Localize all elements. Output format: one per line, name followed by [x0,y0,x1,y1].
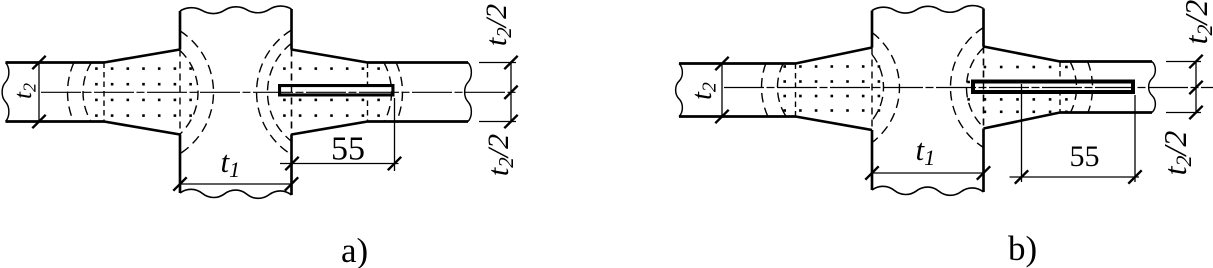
svg-text:t2/2: t2/2 [1157,131,1196,176]
svg-text:t1: t1 [221,144,241,182]
svg-text:t2/2: t2/2 [482,134,518,176]
svg-text:t2: t2 [687,82,721,100]
svg-text:55: 55 [331,131,365,168]
svg-text:t2/2: t2/2 [480,4,516,46]
svg-text:a): a) [341,231,368,268]
svg-text:55: 55 [1070,140,1100,173]
svg-text:t2/2: t2/2 [1178,0,1213,44]
svg-text:t1: t1 [916,132,936,170]
svg-text:b): b) [1008,229,1037,268]
svg-text:t2: t2 [10,83,40,99]
